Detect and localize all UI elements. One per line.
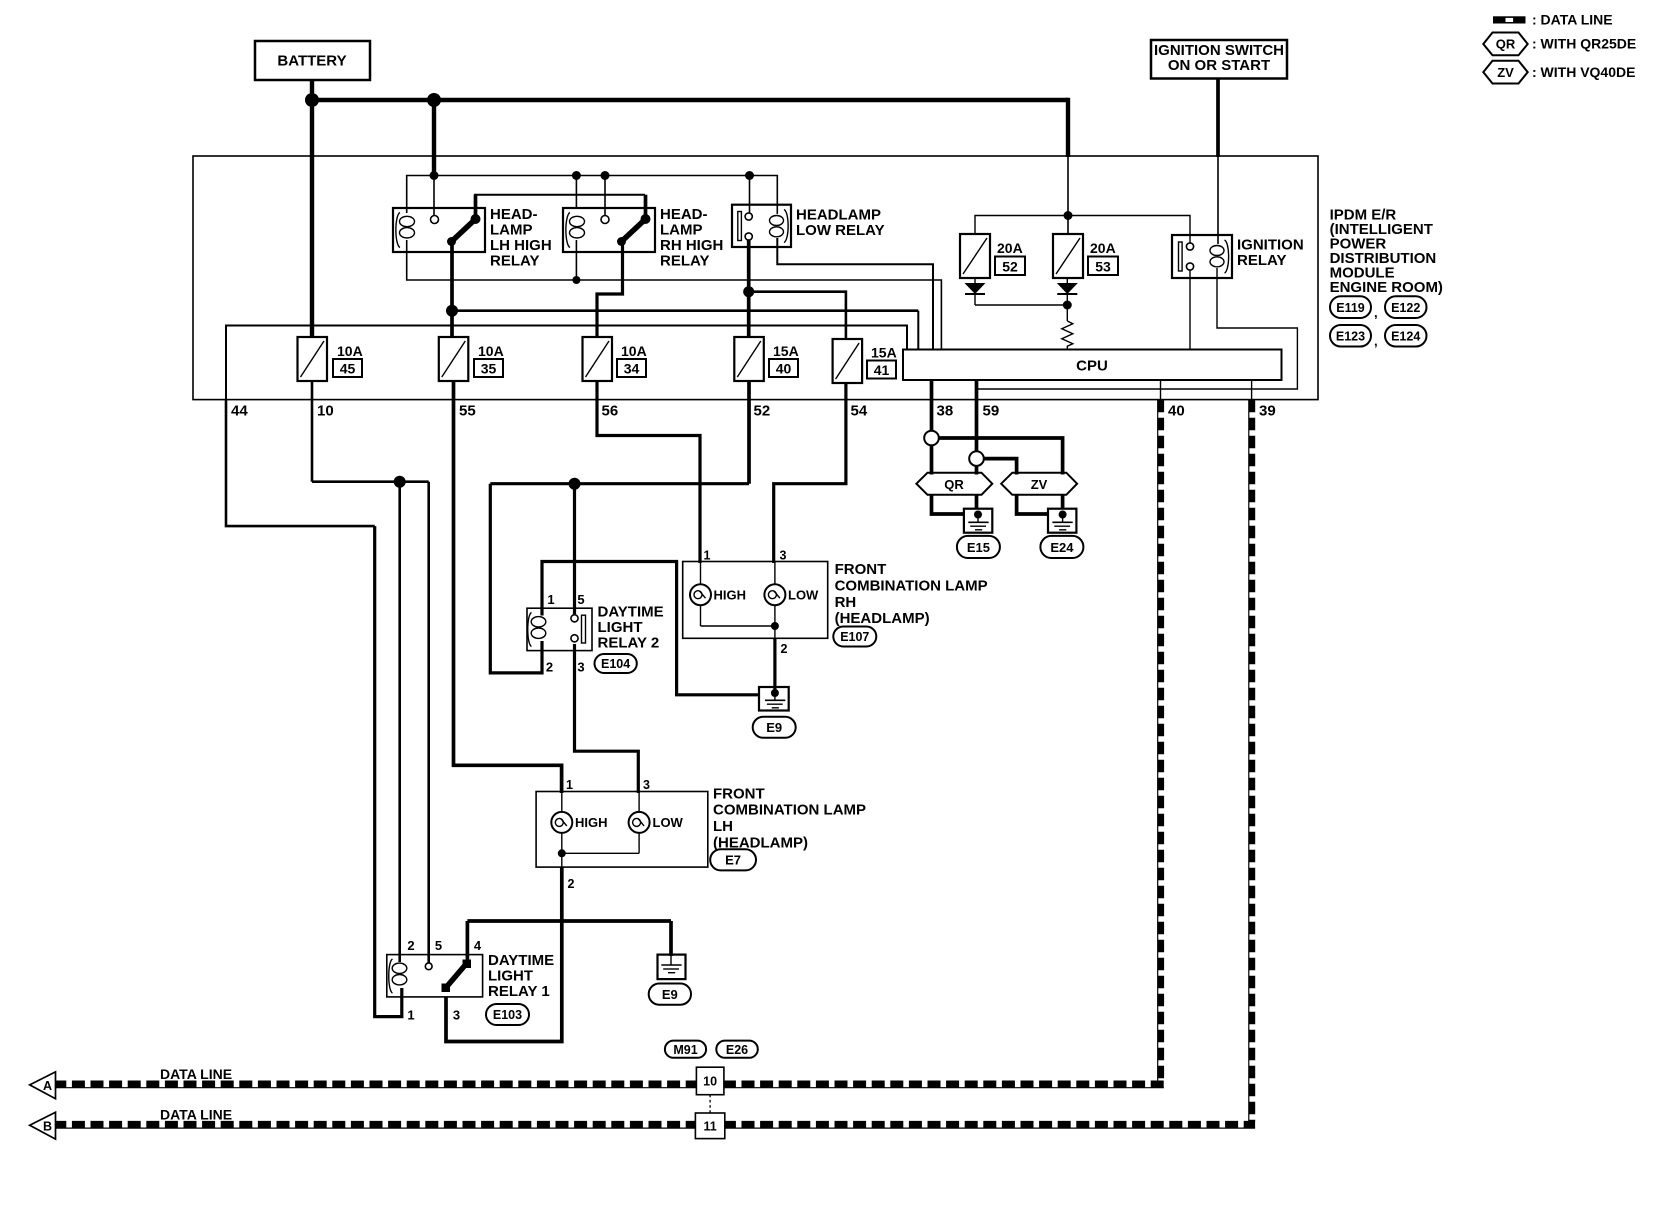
wire pin 59 connector circle (969, 451, 984, 466)
connector E124 (1374, 325, 1427, 349)
label headlamp RH high relay (660, 206, 723, 270)
wire lamp LH ground net horizontal (467, 919, 671, 923)
svg-text:LOW RELAY: LOW RELAY (796, 222, 885, 239)
svg-text:M91: M91 (673, 1043, 697, 1057)
node battery bus junction 1 (305, 93, 319, 107)
connector M91 (665, 1041, 706, 1058)
wire LH switch to RH switch top (474, 195, 646, 221)
svg-text:41: 41 (874, 362, 890, 378)
wire CPU pin 38 (930, 380, 934, 431)
label front combination lamp RH (835, 561, 988, 627)
svg-text:LOW: LOW (788, 588, 819, 603)
wire CPU pin 40 stub (1160, 380, 1162, 400)
wire ignition relay contact to CPU (1189, 270, 1191, 350)
wire pin 52 down (747, 381, 751, 484)
svg-text:E123: E123 (1336, 330, 1365, 344)
svg-text:2: 2 (781, 642, 788, 656)
node RH contact supply (601, 171, 610, 180)
node low relay contact supply (745, 171, 754, 180)
connector E104 (595, 654, 637, 673)
connector E7 (710, 849, 756, 870)
relay K6 daytime light relay 1 (387, 955, 483, 997)
node RH coil return junction (572, 276, 580, 284)
front combination lamp RH box (683, 562, 828, 639)
fuse 41 15A (833, 339, 897, 383)
svg-text:COMBINATION LAMP: COMBINATION LAMP (713, 802, 866, 819)
svg-text:54: 54 (851, 403, 868, 420)
wire ignition relay coil to CPU pin (977, 268, 1298, 389)
node lamp RH common junction (771, 622, 779, 630)
diode D2 under fuse 53 (1057, 278, 1078, 305)
wire ignition relay contact supply (975, 216, 1190, 244)
node battery bus junction 2 (427, 93, 441, 107)
label headlamp LH high relay (490, 206, 552, 270)
svg-text:20A: 20A (997, 240, 1023, 256)
wire battery branch to headlamp relays (432, 100, 436, 216)
svg-text:DATA LINE: DATA LINE (160, 1107, 232, 1123)
arrow B (30, 1112, 56, 1139)
wire coil supply net top (407, 176, 778, 215)
svg-text:2: 2 (568, 877, 575, 891)
svg-text:ZV: ZV (1497, 65, 1514, 80)
label daytime light relay 1 (488, 952, 554, 1000)
connector E9 first (753, 717, 796, 738)
front combination lamp LH box (536, 792, 708, 868)
svg-text:5: 5 (435, 938, 442, 953)
wire lamp RH pin 2 to ground (774, 626, 776, 693)
wire pin 52 branch left (490, 482, 749, 485)
svg-text:BATTERY: BATTERY (277, 53, 346, 70)
svg-text:1: 1 (407, 1008, 414, 1023)
svg-text:E122: E122 (1391, 301, 1420, 315)
svg-text:45: 45 (340, 361, 356, 377)
relay K1 headlamp LH high relay (393, 208, 485, 252)
svg-text:5: 5 (577, 592, 584, 607)
wire ZV to ground E24 (1017, 495, 1063, 514)
connector E15 (957, 536, 1000, 558)
wire to RH relay contact (604, 176, 606, 216)
svg-text:55: 55 (459, 403, 476, 420)
svg-text:CPU: CPU (1076, 358, 1108, 375)
svg-text:: WITH QR25DE: : WITH QR25DE (1532, 36, 1636, 52)
svg-text:34: 34 (624, 361, 640, 377)
svg-text:B: B (43, 1119, 52, 1133)
wire relay coils return to CPU (407, 240, 942, 350)
svg-text:RELAY 1: RELAY 1 (488, 983, 550, 1000)
connector ZV hexagon (1001, 473, 1077, 495)
dotted link between box 10 and 11 (709, 1095, 711, 1113)
svg-text:,: , (1374, 305, 1378, 320)
svg-text:ON OR START: ON OR START (1168, 57, 1270, 74)
fuse 45 10A (298, 337, 363, 381)
svg-text:: WITH VQ40DE: : WITH VQ40DE (1532, 64, 1635, 80)
svg-text:44: 44 (231, 403, 248, 420)
wire low relay coil to CPU (777, 238, 933, 350)
node RH coil supply (572, 171, 581, 180)
ignition switch source box (1151, 40, 1287, 79)
svg-text:3: 3 (453, 1008, 460, 1023)
svg-text:LIGHT: LIGHT (488, 968, 533, 985)
ground symbol E24 (1048, 509, 1076, 533)
wire to daytime relay 1 coil pin 2 (398, 482, 401, 962)
bulb LH LOW (629, 792, 684, 833)
wire to daytime relay 2 pin 5 (573, 484, 576, 614)
data line A horizontal (53, 1084, 1164, 1088)
fuse 40 15A (734, 337, 798, 381)
node LH switch output junction (446, 305, 458, 317)
svg-text:15A: 15A (871, 345, 897, 361)
svg-text:10A: 10A (478, 343, 504, 359)
wire pin 38 to QR (930, 445, 934, 474)
svg-text:E9: E9 (766, 720, 782, 735)
svg-text:59: 59 (983, 403, 1000, 420)
label front combination lamp LH (713, 785, 866, 851)
svg-text:10: 10 (317, 403, 334, 420)
svg-text:10A: 10A (621, 343, 647, 359)
wire RH coil return (575, 240, 577, 280)
resistor R1 to CPU (1062, 305, 1073, 350)
battery B1 (255, 41, 370, 80)
svg-text:1: 1 (704, 549, 711, 563)
svg-text:FRONT: FRONT (835, 561, 887, 578)
svg-text:LAMP: LAMP (490, 222, 533, 239)
node fuse52/53 supply junction (1064, 211, 1073, 220)
svg-text:LIGHT: LIGHT (598, 619, 643, 636)
relay K3 headlamp low relay (732, 205, 791, 247)
fuse 52 20A (960, 234, 1025, 278)
svg-text:40: 40 (776, 361, 792, 377)
wire pin 44 run to daytime relay 1 pin 1 (226, 399, 375, 526)
ground symbol E15 (964, 509, 992, 533)
svg-text:3: 3 (780, 549, 787, 563)
connector QR hexagon (916, 473, 992, 495)
wire low relay contact to fuse 40 (747, 240, 751, 338)
svg-text:2: 2 (407, 938, 414, 953)
connector E24 (1040, 536, 1083, 558)
svg-text:: DATA LINE: : DATA LINE (1532, 12, 1613, 28)
wire pin 44 vertical drop (375, 526, 402, 1017)
svg-text:52: 52 (754, 403, 771, 420)
svg-text:FRONT: FRONT (713, 785, 765, 802)
data line vertical pin 39 (1249, 400, 1252, 1125)
wire lamp RH bulbs common (701, 605, 775, 626)
wire lamp LH bulbs common (562, 833, 639, 853)
junction box 11 on data line B (695, 1113, 724, 1139)
wire CPU pin 59 (975, 380, 979, 452)
svg-text:38: 38 (937, 403, 954, 420)
svg-text:HEADLAMP: HEADLAMP (796, 207, 881, 224)
arrow A (30, 1072, 56, 1099)
svg-text:A: A (43, 1079, 52, 1093)
relay K4 ignition relay (1172, 235, 1232, 278)
svg-text:E7: E7 (725, 853, 741, 868)
relay K2 headlamp RH high relay (563, 208, 655, 252)
fuse 53 20A (1053, 234, 1118, 278)
svg-text:15A: 15A (773, 343, 799, 359)
svg-text:1: 1 (547, 592, 554, 607)
wire main battery bus (312, 98, 1068, 102)
wire pin 55 to front lamp LH pin 1 (454, 381, 562, 793)
wire battery branch to fuse 53 (1066, 98, 1070, 234)
ground symbol E9 second (658, 955, 686, 980)
svg-text:HIGH: HIGH (714, 588, 747, 603)
wire pin 59 branch to ZV (984, 459, 1017, 475)
wire pin 10 branch horizontal (312, 480, 429, 483)
svg-text:11: 11 (703, 1120, 716, 1134)
svg-text:QR: QR (944, 477, 964, 492)
wire lamp LH pin 2 down (561, 853, 563, 921)
data line vertical pin 40 (1158, 400, 1161, 1084)
svg-text:LH HIGH: LH HIGH (490, 237, 552, 254)
svg-text:39: 39 (1259, 403, 1276, 420)
svg-text:E103: E103 (493, 1008, 522, 1022)
svg-text:LOW: LOW (653, 815, 684, 830)
connector E107 (833, 627, 876, 647)
svg-text:COMBINATION LAMP: COMBINATION LAMP (835, 577, 988, 594)
svg-text:52: 52 (1002, 259, 1018, 275)
connector E122 (1374, 296, 1427, 320)
bulb RH LOW (764, 562, 819, 606)
svg-text:20A: 20A (1090, 240, 1116, 256)
svg-text:(HEADLAMP): (HEADLAMP) (835, 610, 930, 627)
svg-text:40: 40 (1168, 403, 1185, 420)
wire pin 54 to front lamp RH pin 3 (774, 383, 846, 563)
wire to relay 1 pin 4 (466, 921, 470, 961)
svg-text:DATA LINE: DATA LINE (160, 1066, 232, 1082)
wire pin 38 connector circle (924, 431, 939, 446)
wire pin 38 branch to ZV (939, 438, 1063, 475)
bulb LH HIGH (551, 792, 607, 833)
wire CPU pin 39 stub (1251, 380, 1253, 400)
svg-text:3: 3 (577, 660, 584, 675)
svg-text:35: 35 (481, 361, 497, 377)
svg-text:E9: E9 (662, 987, 678, 1002)
svg-text:RH: RH (835, 594, 857, 611)
connector E123 (1330, 325, 1371, 347)
svg-text:E15: E15 (967, 540, 990, 555)
label ignition relay (1237, 237, 1304, 270)
legend data line sample (1493, 12, 1613, 28)
node coil-supply junction (430, 171, 439, 180)
svg-text:DAYTIME: DAYTIME (488, 952, 554, 969)
wire pin 10 down (311, 381, 314, 482)
wire to RH relay coil (575, 176, 577, 210)
IPDM E/R module outline (193, 156, 1318, 400)
svg-text:10A: 10A (337, 343, 363, 359)
svg-text:ZV: ZV (1031, 477, 1048, 492)
svg-text:E119: E119 (1336, 301, 1365, 315)
junction box 10 on data line A (696, 1067, 724, 1095)
svg-text:E107: E107 (840, 630, 869, 644)
wire to ground E9 second (669, 921, 673, 956)
legend ZV hexagon (1483, 61, 1635, 84)
node pin10 branch junction (394, 476, 406, 488)
svg-text:RELAY: RELAY (660, 253, 709, 270)
connector E26 (716, 1041, 758, 1058)
wire relay 2 pin 3 to front lamp LH pin 3 (575, 644, 639, 793)
svg-text:RELAY 2: RELAY 2 (598, 635, 660, 652)
ground symbol E9 first (759, 687, 789, 711)
svg-text:E24: E24 (1050, 540, 1074, 555)
bulb RH HIGH (690, 562, 746, 606)
IPDM E/R name label (1330, 207, 1443, 297)
node pin52 branch junction (569, 478, 581, 490)
svg-text:56: 56 (602, 403, 619, 420)
wire relay 1 pin 3 loop (446, 921, 562, 1042)
svg-text:E104: E104 (601, 657, 630, 671)
wire to daytime relay 1 contact pin 5 (427, 482, 430, 963)
wire ignition switch to ignition relay (1216, 79, 1220, 245)
svg-text:DAYTIME: DAYTIME (598, 604, 664, 621)
node diode output junction (1063, 301, 1072, 310)
svg-text:E26: E26 (726, 1043, 748, 1057)
wire to low relay contact (749, 176, 751, 214)
wire CPU to pin 44 (226, 326, 907, 401)
svg-text:RELAY: RELAY (490, 253, 539, 270)
wire pin 56 to front lamp RH pin 1 (597, 381, 700, 563)
wire daytime relay 2 pin 1 to ground E9 (542, 562, 760, 695)
wire pin 59 to QR (975, 466, 979, 475)
svg-text:E124: E124 (1391, 330, 1420, 344)
legend QR hexagon (1483, 33, 1636, 56)
svg-text:IGNITION: IGNITION (1237, 237, 1304, 254)
wire battery down to fuse 45 (310, 80, 314, 338)
diode D1 under fuse 52 (965, 278, 1068, 305)
connector E103 (486, 1004, 529, 1025)
svg-text:1: 1 (566, 778, 573, 792)
svg-text:ENGINE ROOM): ENGINE ROOM) (1330, 279, 1443, 296)
CPU U1 (903, 350, 1282, 381)
label headlamp low relay (796, 207, 885, 240)
svg-text:2: 2 (546, 660, 553, 675)
svg-text:53: 53 (1095, 259, 1111, 275)
svg-text:HEAD-: HEAD- (660, 206, 708, 223)
label daytime light relay 2 (598, 604, 664, 652)
svg-text:RELAY: RELAY (1237, 252, 1286, 269)
fuse 35 10A (439, 337, 504, 381)
svg-text:,: , (1374, 334, 1378, 349)
svg-text:10: 10 (703, 1075, 717, 1089)
wire LH switch output to fuse 35 and CPU (452, 242, 918, 351)
wire RH switch output to fuse 34 (597, 242, 623, 339)
svg-text:HEAD-: HEAD- (490, 206, 538, 223)
connector E119 (1330, 296, 1371, 318)
node low relay output junction (743, 286, 754, 297)
svg-text:3: 3 (643, 778, 650, 792)
wire to daytime relay 2 pin 2 (490, 484, 542, 673)
data line B horizontal (53, 1125, 1255, 1129)
svg-text:HIGH: HIGH (575, 815, 608, 830)
svg-text:QR: QR (1496, 37, 1516, 52)
svg-text:LAMP: LAMP (660, 222, 703, 239)
svg-text:RH HIGH: RH HIGH (660, 237, 723, 254)
connector E9 second (649, 984, 691, 1005)
relay K5 daytime light relay 2 (527, 608, 592, 650)
wire QR to ground E15 (932, 495, 977, 514)
wire low relay output to fuse 41 (749, 292, 846, 340)
node lamp LH common junction (558, 849, 566, 857)
svg-text:4: 4 (474, 938, 482, 953)
svg-text:LH: LH (713, 818, 733, 835)
fuse 34 10A (583, 337, 647, 381)
